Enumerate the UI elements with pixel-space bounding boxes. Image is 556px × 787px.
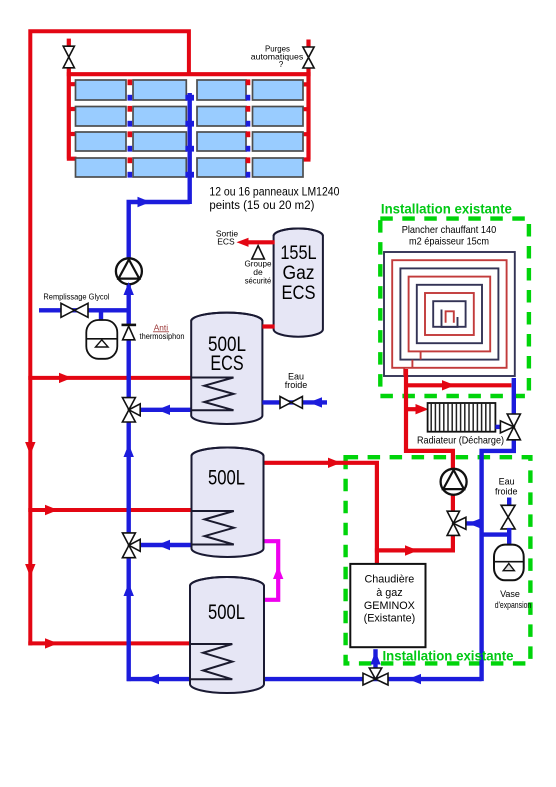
wire: V3 to ECS tank (140, 408, 191, 412)
svg-text:à gaz: à gaz (376, 587, 402, 599)
svg-text:d'expansion: d'expansion (495, 600, 532, 610)
arrow down on left riser (upper) (25, 442, 35, 455)
tank: 155L gaz ECS (274, 229, 323, 337)
svg-text:Remplissage Glycol: Remplissage Glycol (43, 292, 109, 302)
wire: radiator valve to return main (482, 439, 514, 681)
arrow left toward V3 (157, 405, 170, 415)
svg-text:automatiques: automatiques (251, 53, 304, 62)
wire: right collector manifold (303, 67, 311, 160)
arrow right on ECS branch (59, 373, 72, 383)
svg-text:(Existante): (Existante) (364, 613, 416, 625)
svg-text:Chaudière: Chaudière (364, 574, 414, 586)
check valve anti-thermosiphon (122, 325, 137, 340)
valve V7 (3-way mixing) (447, 511, 459, 523)
arrow down on left riser (lower) (25, 564, 35, 577)
valve: eau froide mid (280, 397, 291, 409)
arrow left on bottom return (left) (146, 674, 159, 684)
arrow left on eau froide mid (309, 397, 322, 407)
wire: hot supply to tank2 top (263, 461, 380, 465)
svg-text:ECS: ECS (282, 283, 316, 304)
wire: left collector manifold (67, 66, 77, 159)
valve: glycol fill (61, 303, 75, 317)
arrow left on bottom return (right) (408, 674, 421, 684)
wire: V7 bottom stub (451, 535, 455, 552)
wire: spiral blue return drop (512, 378, 516, 415)
arrow right toward panels (138, 197, 151, 207)
arrow right on tank2 branch (45, 505, 58, 515)
arrow up into pump P1 (124, 282, 134, 295)
wire: collector top header (67, 72, 311, 76)
tank: 500L bottom (190, 577, 264, 693)
valve: purge valve left (63, 46, 74, 57)
arrow up below V4 (124, 583, 134, 596)
valve: purge right stub (306, 40, 310, 49)
wire: boiler riser (375, 461, 379, 564)
svg-text:Radiateur (Décharge): Radiateur (Décharge) (417, 435, 504, 447)
valve: purge valve right (303, 47, 314, 58)
valve V8 (3-way radiator) (507, 414, 520, 427)
wire: V4 to tank2 (140, 543, 191, 547)
arrow left into V7 (468, 518, 481, 528)
svg-text:GEMINOX: GEMINOX (364, 600, 415, 612)
valve: eau froide right (501, 505, 515, 517)
svg-text:500L: 500L (208, 600, 245, 624)
wire: radiator inlet stub (406, 407, 416, 411)
svg-text:Vase: Vase (500, 589, 520, 599)
svg-text:froide: froide (495, 486, 518, 496)
radiator (decharge) (428, 403, 496, 432)
svg-text:Installation existante: Installation existante (381, 202, 512, 217)
wire: cold riser seg1 (126, 284, 130, 324)
wire: cold return panels to pump (129, 202, 190, 258)
wire: spiral red feed stub (404, 369, 408, 385)
wire: vessel stub (99, 310, 103, 321)
svg-text:peints (15 ou 20 m2): peints (15 ou 20 m2) (209, 198, 314, 212)
svg-text:froide: froide (285, 380, 308, 390)
solar panel array 4x4 (76, 80, 304, 177)
valve V6 (3-way boiler) (363, 673, 376, 685)
svg-text:Installation existante: Installation existante (383, 649, 514, 664)
groupe de securite symbol (252, 246, 265, 259)
wire: central cold collector (185, 93, 194, 204)
svg-text:ECS: ECS (210, 351, 243, 375)
arrow right into radiator (416, 404, 429, 414)
svg-text:500L: 500L (208, 466, 245, 490)
wire: hot branch to tank 2 (28, 508, 191, 512)
floor heating spiral (plancher chauffant) (384, 252, 515, 376)
wire: bottom cold return line (127, 677, 482, 681)
wire: boiler hot header (375, 548, 453, 552)
arrow left sortie ECS (237, 238, 249, 247)
wire: eau froide to ECS tank (262, 400, 327, 404)
valve V3 (3-way ECS) (122, 398, 135, 410)
zone box: installation existante (boiler) (346, 457, 531, 663)
wire: cold riser seg4 (126, 558, 130, 681)
svg-text:155L: 155L (280, 243, 316, 264)
svg-text:12 ou 16 panneaux LM1240: 12 ou 16 panneaux LM1240 (209, 185, 339, 199)
wire: radiator outlet (495, 425, 501, 429)
arrow left toward V4 (157, 540, 170, 550)
arrow right on tank3 branch (45, 638, 58, 648)
panel interconnect ties (128, 79, 251, 177)
wire: floor heating supply header (404, 383, 511, 387)
tank: 500L middle (192, 448, 264, 558)
svg-text:Gaz: Gaz (283, 263, 315, 284)
wire: heating supply down-leg (406, 385, 453, 469)
wire: ECS to 155L connector (262, 324, 274, 328)
svg-text:Plancher chauffant 140: Plancher chauffant 140 (402, 224, 497, 236)
arrow right on boiler header (405, 545, 418, 555)
svg-text:ECS: ECS (217, 237, 235, 247)
wire: sortie ECS (247, 240, 275, 244)
pump P1 (solar) (116, 258, 142, 284)
arrow right on supply header (442, 380, 455, 390)
svg-text:m2 épaisseur 15cm: m2 épaisseur 15cm (409, 236, 489, 248)
wire: magenta inter-tank transfer (262, 541, 278, 600)
wire: cold riser seg3 (126, 422, 130, 533)
arrow up into boiler (370, 652, 380, 665)
vase d'expansion (494, 545, 524, 581)
wire: V7 blue link (466, 521, 482, 525)
wire: glycol fill line (39, 308, 127, 312)
wire: cold riser seg2 (126, 340, 130, 398)
expansion vessel (glycol) (86, 320, 117, 359)
valve: purge left stub (67, 39, 71, 48)
arrow up on magenta (273, 566, 283, 579)
pump P2 (heating) (441, 469, 467, 495)
svg-text:Eau: Eau (499, 477, 515, 487)
wire: link to return main (482, 532, 510, 536)
wire: solar hot supply main (top feed + left riser) (30, 31, 189, 645)
wire: hot branch to ECS tank (28, 376, 191, 380)
wire: boiler cold inlet stub (373, 649, 377, 669)
arrow up between V3 and V4 (124, 444, 134, 457)
tank: 500L ECS (191, 313, 262, 424)
arrow right on tank2 top supply (328, 458, 341, 468)
wire: eau froide right stub (507, 498, 511, 507)
svg-text:sécurité: sécurité (245, 276, 272, 286)
boiler box GEMINOX (350, 564, 425, 647)
svg-text:thermosiphon: thermosiphon (140, 331, 185, 341)
wire: pump2 to V7 (451, 495, 455, 511)
svg-text:?: ? (279, 60, 284, 69)
valve V4 (3-way tank2) (122, 533, 135, 545)
wire: eau froide to vase (507, 528, 511, 545)
zone box: installation existante (floor heating) (380, 219, 529, 396)
wire: hot branch to tank 3 (28, 641, 190, 645)
